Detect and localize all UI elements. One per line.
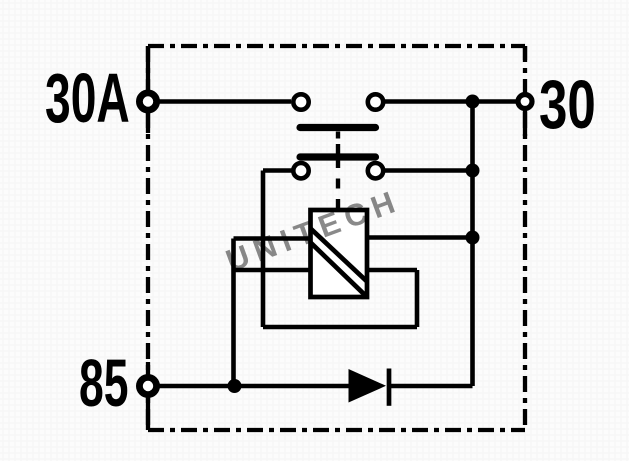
svg-text:85: 85	[79, 346, 129, 420]
svg-text:30A: 30A	[45, 58, 130, 137]
svg-text:30: 30	[539, 65, 596, 142]
